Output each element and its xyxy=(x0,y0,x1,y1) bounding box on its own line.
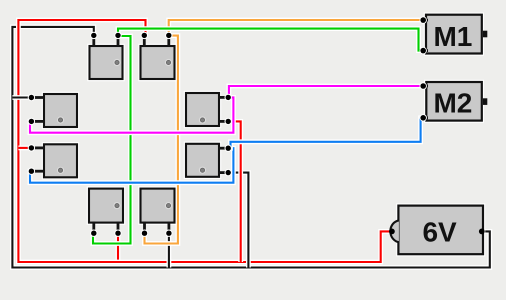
switch S6 xyxy=(186,144,219,177)
wire red positive bus (S2.pin1 to battery plus) xyxy=(18,20,392,262)
junction dots S4 pins xyxy=(28,144,35,175)
wire black negative bus (B1.pin1 to battery minus) xyxy=(12,27,489,268)
junction dots S3 pins xyxy=(28,94,35,125)
wire black branch to S3.pin1 xyxy=(12,95,31,100)
pin stubs S6 xyxy=(218,148,228,172)
junction dots S6 pins xyxy=(225,145,232,177)
wire blue S6.pin1 to M2.pin2 xyxy=(228,118,423,148)
pin stubs S4 xyxy=(31,148,45,171)
junction dots S7 pins xyxy=(90,230,122,237)
svg-text:M1: M1 xyxy=(433,21,472,52)
junction dots S5 pins xyxy=(225,94,232,125)
junction dots M1 pins xyxy=(420,16,427,54)
wire green S1.pin2 to M1.pin2 xyxy=(118,29,423,51)
pin stubs S8 xyxy=(145,222,169,234)
pin stubs M1 xyxy=(423,20,428,50)
switch S7 xyxy=(89,189,123,223)
pin stubs S5 xyxy=(218,97,228,121)
wire red S5.pin2 to red bus xyxy=(228,121,241,262)
wire blue S4.pin2 to S6.pin1 xyxy=(30,148,233,183)
pin stubs S7 xyxy=(94,222,118,234)
junction dots battery pins xyxy=(389,229,485,235)
motor M1 xyxy=(426,15,487,54)
wire green S1.pin2 to S7.pin1 xyxy=(93,36,131,244)
junction dots M2 pins xyxy=(420,82,427,121)
wire black S8.pin2 drop to negative bus xyxy=(166,233,171,267)
svg-text:M2: M2 xyxy=(433,88,472,119)
switch S3 xyxy=(44,94,77,127)
wire black S6.pin2 to negative bus xyxy=(228,173,248,268)
wire magenta S5.pin1 to M2.pin1 xyxy=(228,86,423,97)
switch S1 xyxy=(90,46,123,79)
switch S8 xyxy=(141,189,175,223)
battery 6V xyxy=(390,206,483,255)
motor M2 xyxy=(426,82,487,121)
pin stubs S3 xyxy=(31,98,45,122)
switch S2 xyxy=(141,46,175,79)
wire magenta S3.pin2 to S5.pin1 xyxy=(30,97,233,132)
wire orange S2.pin2 to M1.pin1 xyxy=(169,20,424,35)
switch S5 xyxy=(186,93,219,126)
wire orange S2.pin2 to S8.pin1 xyxy=(145,36,178,244)
junction dots S1 pins xyxy=(90,32,122,39)
pin stubs S2 xyxy=(144,35,169,47)
junction dots S2 pins xyxy=(141,32,173,39)
pin stubs S1 xyxy=(94,35,118,47)
svg-text:6V: 6V xyxy=(422,217,457,248)
pin stubs M2 xyxy=(423,86,428,118)
switch S4 xyxy=(44,144,77,177)
junction dots S8 pins xyxy=(141,230,173,237)
wire red branch to S4.pin1 xyxy=(18,145,31,150)
wire red S7.pin2 drop to red bus xyxy=(116,233,121,262)
